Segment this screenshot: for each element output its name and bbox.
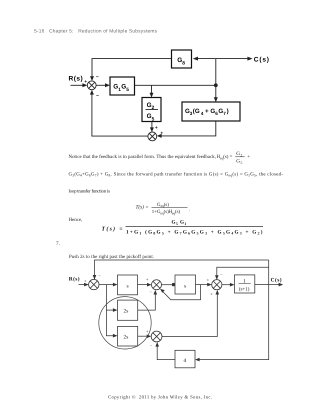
svg-text:Notice that the feedback is in: Notice that the feedback is in parallel …	[69, 154, 217, 160]
svg-text:T(s) =: T(s) =	[102, 225, 124, 232]
svg-text:4: 4	[201, 111, 204, 116]
svg-text:+: +	[146, 329, 149, 334]
svg-text:loop transfer function is: loop transfer function is	[69, 188, 111, 194]
svg-text:1: 1	[184, 222, 186, 226]
wire: summer4 output right and up into summer3 bottom	[162, 294, 217, 337]
inline fraction G2/G5	[235, 151, 250, 165]
highlight ellipse around 2s blocks	[99, 297, 151, 349]
svg-text:s: s	[184, 283, 186, 289]
svg-text:2s: 2s	[124, 309, 129, 315]
arrowhead into summer1 bottom	[90, 90, 94, 95]
arrowhead into summer1 top (d2)	[93, 275, 97, 280]
svg-text:+: +	[247, 155, 250, 160]
arrowhead into C(s)	[247, 57, 252, 61]
svg-text:R(s): R(s)	[69, 76, 83, 83]
summer 2 (diagram 2)	[152, 280, 162, 290]
arrowhead into summer2 left	[147, 283, 152, 287]
arrowhead into G3 top	[214, 97, 218, 102]
summer 4 (diagram 2)	[151, 331, 162, 342]
wire: outer feedback top line	[95, 260, 269, 279]
svg-text:Hence,: Hence,	[69, 217, 83, 223]
svg-text:5: 5	[176, 222, 178, 226]
wire: G8 output to left then down to summer 1	[92, 59, 172, 79]
arrowhead into G8 right	[193, 57, 198, 61]
equation 1: T(s)=Geq(s)/(1+Geq(s)Heq(s))	[136, 202, 191, 215]
wire: branch into 2s1	[106, 309, 114, 311]
svg-text:5: 5	[126, 87, 129, 93]
svg-text:C(s): C(s)	[271, 278, 282, 284]
wire: pickoff down into G2/G5	[151, 85, 153, 94]
arrowhead into summer4 bottom	[155, 342, 159, 347]
block s (first)	[118, 275, 138, 295]
wire: G2/G5 output down into summer 2	[151, 122, 153, 130]
arrowhead into summer3 bottom	[216, 290, 220, 295]
svg-text:(G: (G	[193, 108, 200, 115]
svg-text:−: −	[96, 74, 99, 80]
block 2s (first)	[118, 300, 138, 320]
svg-text:C(s): C(s)	[254, 56, 269, 63]
svg-text:+: +	[210, 292, 213, 297]
wire: summer2 output left and up into summer1 bottom	[92, 93, 148, 136]
wire: bypass from node after s2 down and into summer2	[162, 285, 200, 300]
arrowhead into summer1 top	[90, 76, 94, 81]
arrowhead into summer2 bottom	[154, 290, 158, 295]
equation 2 (bold): T(s) = G5G1 / (1+G1(G8G5+G7G6G5G3+G5G4G3+G2))	[102, 220, 264, 236]
svg-text:−: −	[220, 272, 223, 277]
svg-text:5: 5	[152, 116, 155, 122]
svg-text:(s+1): (s+1)	[239, 287, 250, 293]
wire: s2 to summer3	[196, 284, 209, 286]
svg-text:Copyright © 2011 by John Wile: Copyright © 2011 by John Wiley & Sons, I…	[108, 395, 212, 401]
svg-text:): )	[227, 108, 229, 115]
wire: G3 output down and left into summer 2	[160, 121, 215, 136]
svg-text:+: +	[160, 131, 163, 136]
wire: top feedback line from C(s) junction into G8	[197, 58, 216, 60]
svg-text:+: +	[84, 278, 87, 283]
block G2/G5	[142, 98, 161, 123]
svg-text:+: +	[155, 126, 158, 131]
svg-text:5-16 Chapter 5: Reduction: 5-16 Chapter 5: Reduction of Multiple Su…	[34, 29, 158, 35]
svg-text:−: −	[96, 93, 99, 99]
svg-text:Push 2s to the right past the: Push 2s to the right past the pickoff po…	[69, 254, 154, 260]
arrowhead into 4 block	[195, 358, 200, 362]
svg-text:.: .	[189, 208, 190, 213]
wire: summer1 to s block with pickoff	[99, 284, 114, 286]
arrowhead into G1G5	[105, 83, 110, 87]
wire: summer1 to G1G5	[96, 84, 106, 86]
wire: summer3 to 1/(s+1)	[222, 284, 231, 286]
wire: R(s) input arrow	[71, 84, 84, 86]
svg-text:G3(G4+G6G7) + G8. Since the fo: G3(G4+G6G7) + G8. Since the forward path…	[69, 171, 284, 177]
wire: R(s) input	[79, 284, 86, 286]
arrowhead into summer4 left	[147, 335, 152, 339]
summer 1 (diagram 1)	[87, 81, 96, 90]
svg-text:4: 4	[184, 358, 187, 364]
block s (second)	[175, 275, 196, 294]
block 2s (second)	[118, 326, 138, 346]
arrowhead into 2s2	[113, 334, 118, 338]
summer 2 (diagram 1)	[148, 132, 157, 141]
svg-text:5: 5	[241, 161, 243, 165]
svg-text:(s): (s)	[175, 209, 181, 215]
wire: junction up-line to C(s)	[216, 58, 248, 60]
arrowhead into s1	[113, 283, 118, 287]
summer 3 (diagram 2)	[212, 280, 222, 290]
wire: vertical from C line down through node to G3 block	[215, 59, 217, 99]
arrowhead into 1/(s+1)	[230, 283, 235, 287]
arrowhead into G2/G5 top	[150, 93, 154, 98]
svg-text:+: +	[205, 108, 209, 115]
svg-text:2: 2	[152, 105, 155, 111]
svg-text:R(s): R(s)	[69, 277, 80, 283]
svg-text:+: +	[207, 278, 210, 283]
svg-text:8: 8	[182, 60, 185, 66]
arrowhead into summer2 right	[157, 134, 162, 138]
wire: summer2 to s2	[162, 284, 172, 286]
arrowhead into 2s1	[113, 308, 118, 312]
svg-text:−: −	[98, 273, 101, 278]
block G3(G4+G6G7)	[182, 102, 240, 121]
arrowhead into summer3 left	[207, 283, 212, 287]
wire: 2s1 output up into summer2	[138, 293, 156, 310]
arrowhead R(s) into summer1	[82, 83, 87, 87]
wire: 4 block output left and up into summer4	[157, 346, 175, 360]
svg-text:(s): (s)	[164, 202, 170, 208]
block 1/(s+1)	[235, 275, 255, 293]
summer 1 (diagram 2)	[89, 279, 99, 289]
arrowhead into summer2 top	[150, 127, 154, 132]
svg-text:T(s) =: T(s) =	[136, 204, 149, 210]
arrowhead into summer3 top (d2)	[215, 275, 219, 280]
svg-text:(s) =: (s) =	[223, 154, 232, 160]
svg-text:2s: 2s	[124, 335, 129, 341]
arrowhead C(s) output	[279, 283, 284, 287]
svg-text:−: −	[149, 290, 152, 295]
wire: s1 to summer2	[138, 284, 149, 286]
dot arrowhead into s2	[172, 283, 175, 286]
svg-text:s: s	[127, 284, 129, 290]
wire: pickoff vertical feeding 2s blocks	[106, 285, 114, 336]
wire: G1G5 output to node	[135, 84, 216, 86]
svg-text:+: +	[84, 80, 87, 85]
block G1G5	[110, 77, 135, 95]
block G8	[172, 50, 192, 68]
svg-text:1+G1 (G8G5 + G7G6G5G3 + G5G4G3: 1+G1 (G8G5 + G7G6G5G3 + G5G4G3 + G2)	[126, 229, 263, 235]
svg-text:7.: 7.	[56, 241, 60, 247]
wire: output to C(s)	[255, 284, 280, 286]
svg-text:+: +	[146, 277, 149, 282]
block 4	[175, 350, 195, 368]
arrowhead R(s) into summer1 (d2)	[84, 283, 89, 287]
node dot on main line	[214, 83, 218, 87]
svg-text:−: −	[150, 343, 153, 348]
wire: right vertical from C pickoff down to 4-block line	[199, 260, 269, 360]
wire: inner feedback line to summer3 top	[217, 267, 269, 279]
wire: 2s2 to summer4	[138, 335, 148, 337]
arrowhead bypass into summer2 lower right	[160, 289, 165, 293]
